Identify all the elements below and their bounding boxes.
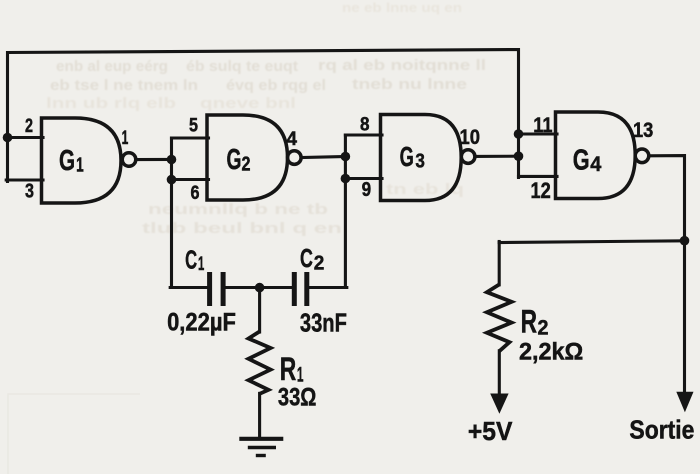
svg-text:2: 2 xyxy=(25,115,33,137)
svg-text:12: 12 xyxy=(531,178,551,203)
svg-text:lnn ub rlq elb: lnn ub rlq elb xyxy=(46,95,176,112)
svg-text:C: C xyxy=(300,243,313,273)
svg-text:11: 11 xyxy=(533,114,553,137)
svg-text:+5V: +5V xyxy=(468,416,513,446)
svg-text:enb al eup eérg: enb al eup eérg xyxy=(56,58,168,75)
svg-text:ne eb lnne uq en: ne eb lnne uq en xyxy=(342,0,462,15)
svg-text:2: 2 xyxy=(314,252,325,275)
svg-text:2: 2 xyxy=(242,154,251,176)
svg-text:4: 4 xyxy=(590,153,601,176)
svg-text:1: 1 xyxy=(76,155,84,177)
svg-text:1: 1 xyxy=(198,253,204,275)
svg-text:33nF: 33nF xyxy=(300,308,347,338)
svg-text:3: 3 xyxy=(25,180,34,203)
svg-text:G: G xyxy=(59,145,75,177)
svg-text:3: 3 xyxy=(415,151,425,173)
svg-text:rq al eb noitqnne ll: rq al eb noitqnne ll xyxy=(318,57,486,74)
svg-text:eb tse l ne tnem ln: eb tse l ne tnem ln xyxy=(50,77,198,94)
svg-text:5: 5 xyxy=(189,116,198,137)
svg-text:C: C xyxy=(185,245,197,275)
svg-text:13: 13 xyxy=(633,119,653,142)
svg-text:6: 6 xyxy=(191,183,200,204)
svg-text:33Ω: 33Ω xyxy=(278,384,317,412)
svg-text:évq eb rqg el: évq eb rqg el xyxy=(226,77,326,94)
svg-text:0,22µF: 0,22µF xyxy=(167,310,236,337)
svg-text:2: 2 xyxy=(538,317,549,340)
svg-text:G: G xyxy=(573,144,590,176)
svg-text:neumnllq b ne tb: neumnllq b ne tb xyxy=(148,201,328,218)
svg-text:9: 9 xyxy=(362,179,372,201)
svg-text:G: G xyxy=(400,141,414,172)
svg-text:4: 4 xyxy=(287,129,298,150)
svg-text:qneve bnl: qneve bnl xyxy=(200,95,296,112)
svg-text:8: 8 xyxy=(360,115,370,136)
svg-text:Sortie: Sortie xyxy=(629,415,694,445)
svg-text:G: G xyxy=(227,144,242,176)
svg-text:éb sulq te euqt: éb sulq te euqt xyxy=(186,58,298,75)
svg-text:2,2kΩ: 2,2kΩ xyxy=(519,340,583,366)
svg-text:tneb nu lnne: tneb nu lnne xyxy=(352,76,467,93)
svg-text:R: R xyxy=(521,304,537,340)
svg-text:R: R xyxy=(280,351,297,387)
svg-text:10: 10 xyxy=(460,126,481,149)
svg-text:1: 1 xyxy=(122,127,129,149)
